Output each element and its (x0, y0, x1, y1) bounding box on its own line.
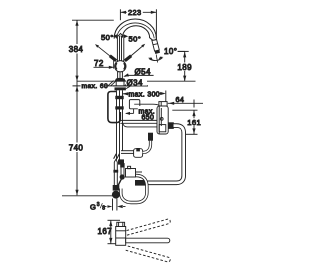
connector fitting (148, 133, 153, 141)
ball joint (115, 61, 126, 72)
cable to control box (123, 124, 157, 127)
hose bundle to filter unit (121, 151, 134, 154)
lever wedge right (125, 56, 131, 61)
svg-text:161: 161 (187, 118, 201, 127)
svg-text:189: 189 (177, 63, 192, 72)
lever riser tube (117, 33, 123, 61)
power plug box (129, 100, 139, 109)
hose from control box to bottom run (136, 126, 184, 183)
middle tube (118, 163, 125, 186)
counter top line (77, 80, 196, 82)
counter hatch left (108, 81, 117, 86)
svg-text:max. 300: max. 300 (129, 91, 161, 98)
dim max300 (123, 91, 166, 102)
control box (157, 102, 174, 134)
pull-out hose loop (108, 92, 120, 123)
faucet column (118, 72, 123, 79)
label dia34 (126, 78, 147, 88)
counter hatch right (125, 81, 134, 86)
svg-text:G: G (90, 202, 96, 211)
counter bottom line right (113, 85, 148, 87)
svg-text:Ø34: Ø34 (127, 78, 143, 87)
plug leader arrow (125, 109, 134, 115)
svg-text:384: 384 (69, 45, 84, 54)
svg-text:max. 60: max. 60 (82, 83, 109, 90)
mounting nut (115, 87, 126, 90)
detail arm solid (126, 238, 170, 243)
supply pipe lower fitting (113, 185, 120, 191)
valve body (126, 166, 143, 177)
detail cylinder (116, 222, 126, 245)
plug cable (140, 104, 160, 105)
dim 384/740 vertical line (62, 20, 114, 196)
spray head (152, 39, 161, 54)
G3/8 ball connector (112, 191, 120, 199)
supply tube below (113, 199, 117, 211)
filter unit (134, 148, 143, 157)
bundle fitting 1 (115, 96, 123, 99)
dim 223 top (120, 8, 156, 41)
bundle bottom fitting (118, 159, 124, 164)
svg-text:3: 3 (97, 202, 100, 208)
label max. 60 (81, 82, 109, 90)
spout arc (114, 19, 156, 40)
svg-text:223: 223 (128, 8, 142, 17)
C hose loop (121, 176, 147, 203)
hose split diagonals (114, 154, 117, 159)
dim 189 (177, 51, 192, 81)
lever line right (130, 44, 146, 57)
lever rotation arrows (113, 34, 129, 38)
svg-text:64: 64 (176, 95, 185, 104)
label G3/8 (90, 202, 126, 212)
lever wedge left (110, 56, 116, 61)
dim 167 (98, 220, 121, 243)
counter bottom line (73, 85, 149, 87)
base flange (115, 78, 126, 81)
dim 64 (168, 95, 203, 108)
svg-text:10°: 10° (164, 47, 177, 56)
fitting on bottom run (135, 180, 146, 186)
hose to control box (120, 120, 157, 123)
supply pipe (113, 160, 118, 187)
spray axis line (156, 55, 157, 63)
shank through counter (116, 81, 124, 86)
svg-text:740: 740 (69, 144, 84, 153)
dim 72 (94, 59, 115, 69)
label dia54 (123, 68, 153, 77)
svg-text:50°: 50° (129, 35, 142, 44)
lever line left (95, 44, 111, 57)
10deg swivel arc arrow (148, 57, 164, 61)
bundle fitting 2 (115, 106, 123, 109)
svg-text:167: 167 (98, 227, 113, 236)
svg-text:72: 72 (94, 59, 104, 68)
label max650 (138, 106, 156, 122)
hose bundle below deck (117, 90, 123, 160)
detail arm dashed lower (126, 246, 171, 262)
hose filter to connector up (143, 140, 151, 153)
detail arm dashed upper (126, 219, 171, 235)
dim 161 (172, 110, 201, 134)
svg-text:50°: 50° (101, 33, 114, 42)
label 10deg (164, 47, 185, 56)
